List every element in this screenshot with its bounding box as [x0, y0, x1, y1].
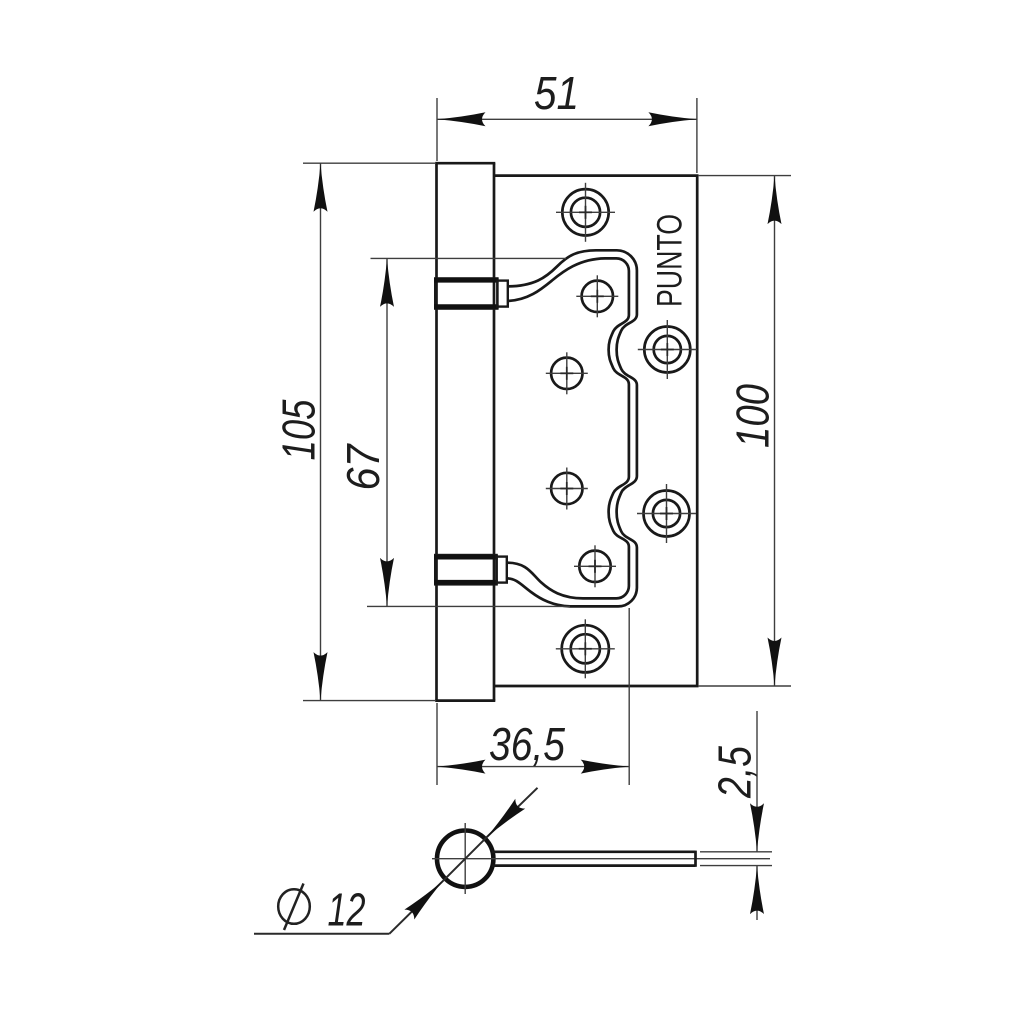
- svg-text:PUNTO: PUNTO: [650, 214, 689, 307]
- svg-text:12: 12: [328, 884, 366, 936]
- svg-text:100: 100: [726, 384, 778, 448]
- svg-text:67: 67: [337, 443, 389, 490]
- svg-text:51: 51: [534, 67, 579, 119]
- svg-text:36,5: 36,5: [489, 718, 565, 770]
- svg-text:105: 105: [272, 399, 324, 460]
- svg-text:2,5: 2,5: [708, 746, 760, 799]
